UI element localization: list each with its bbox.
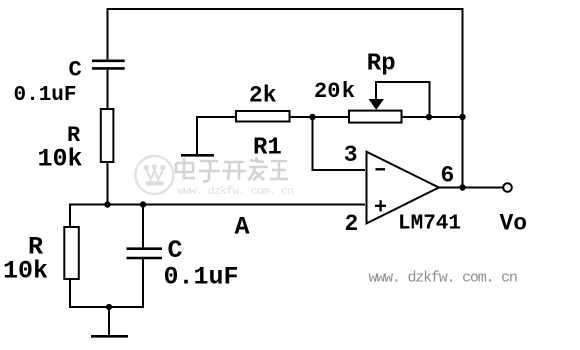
svg-text:10k: 10k <box>3 257 48 286</box>
svg-text:Vo: Vo <box>500 211 528 237</box>
svg-text:A: A <box>235 213 250 242</box>
svg-text:0.1uF: 0.1uF <box>14 84 77 107</box>
svg-text:www. dzkfw. com. cn: www. dzkfw. com. cn <box>369 270 517 287</box>
svg-text:C: C <box>69 58 82 83</box>
svg-text:0.1uF: 0.1uF <box>164 263 239 292</box>
svg-text:C: C <box>168 236 183 265</box>
svg-text:k: k <box>342 79 355 104</box>
svg-text:3: 3 <box>344 142 358 168</box>
svg-text:2k: 2k <box>249 83 277 109</box>
svg-text:6: 6 <box>441 163 455 189</box>
svg-text:20: 20 <box>314 79 340 104</box>
svg-text:www. dzkfw. com. cn: www. dzkfw. com. cn <box>178 186 294 198</box>
svg-text:LM741: LM741 <box>398 213 461 236</box>
svg-text:10k: 10k <box>38 145 83 174</box>
svg-text:Rp: Rp <box>367 51 396 78</box>
svg-text:R1: R1 <box>253 135 282 162</box>
svg-text:2: 2 <box>345 211 359 237</box>
